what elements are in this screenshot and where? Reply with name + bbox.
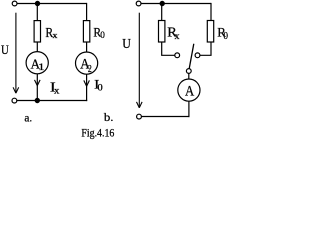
svg-text:a.: a. [24,111,32,125]
switch S1 blade [189,44,194,69]
wire (ammeter A bottom down to bottom rail corner) [188,101,190,117]
wire (Rx branch b: junction to resistor) [161,4,163,21]
wire (R0 b bottom, elbow to right switch contact) [200,42,211,55]
wire (R0 a bottom to ammeter A2) [86,42,88,52]
wire (Rx b bottom, elbow to left switch contact) [162,42,175,55]
terminal T2a (circuit a, bottom-left) [12,98,17,103]
svg-text:x: x [53,31,58,40]
resistor Rx (circuit b) [159,21,165,43]
contact K1 (switch contact from Rx) [175,53,180,58]
label R0 (circuit b) [217,26,228,43]
svg-text:A: A [185,84,195,100]
wire (R0 branch b: top rail corner down to resistor) [210,3,212,21]
arrow Ix (current arrow on A1 branch) [35,80,41,86]
label Ix [50,81,60,97]
terminal T2b (circuit b, bottom-left) [137,114,142,119]
wire (circuit a, top rail) [17,3,87,5]
wire (A1 bottom to bottom junction) [36,74,38,101]
svg-text:0: 0 [98,84,104,94]
ammeter A2 [76,52,98,74]
svg-text:1: 1 [38,62,45,73]
wire (circuit a, bottom rail) [17,100,87,102]
ammeter A (circuit b) [178,79,200,101]
switch S1 pole [186,69,191,74]
node (circuit a, top junction dot) [35,1,40,6]
wire (Rx a bottom to ammeter A1) [36,42,38,52]
label R0 (circuit a) [93,25,105,41]
terminal T1a (circuit a, top-left) [12,1,17,6]
arrow U (voltage arrow, circuit b) [137,13,143,108]
wire (Rx branch a: junction to resistor) [36,4,38,21]
svg-text:2: 2 [88,64,92,75]
svg-text:Fig.4.16: Fig.4.16 [81,127,114,139]
svg-text:x: x [54,86,60,97]
svg-text:0: 0 [223,30,228,42]
ammeter A1 [26,52,48,74]
svg-text:x: x [175,31,180,42]
node (circuit b, top junction dot) [160,1,165,6]
wire (A2 bottom down to bottom rail corner) [86,74,88,101]
svg-text:b.: b. [104,110,114,124]
label Rx (circuit b) [167,25,179,43]
arrow U (voltage arrow, circuit a) [13,13,19,94]
svg-text:0: 0 [100,30,105,41]
node (circuit a, bottom junction dot) [35,98,40,103]
wire (circuit b, top rail) [141,3,211,5]
arrow I0 (current arrow on A2 branch) [84,80,90,86]
wire (circuit b, bottom rail) [142,116,190,118]
resistor R0 (circuit b) [207,21,213,43]
svg-text:U: U [1,42,9,57]
resistor Rx (circuit a) [34,21,40,42]
svg-text:U: U [122,36,131,51]
wire (R0 branch a: top rail corner down to resistor) [86,3,88,21]
contact K2 (switch contact from R0) [195,53,200,58]
label Rx (circuit a) [45,25,57,40]
label A1 [31,58,45,74]
resistor R0 (circuit a) [83,21,89,42]
terminal T1b (circuit b, top-left) [136,1,141,6]
wire (pole to ammeter A) [188,74,190,80]
label A2 [80,57,92,75]
label I0 [94,78,103,94]
